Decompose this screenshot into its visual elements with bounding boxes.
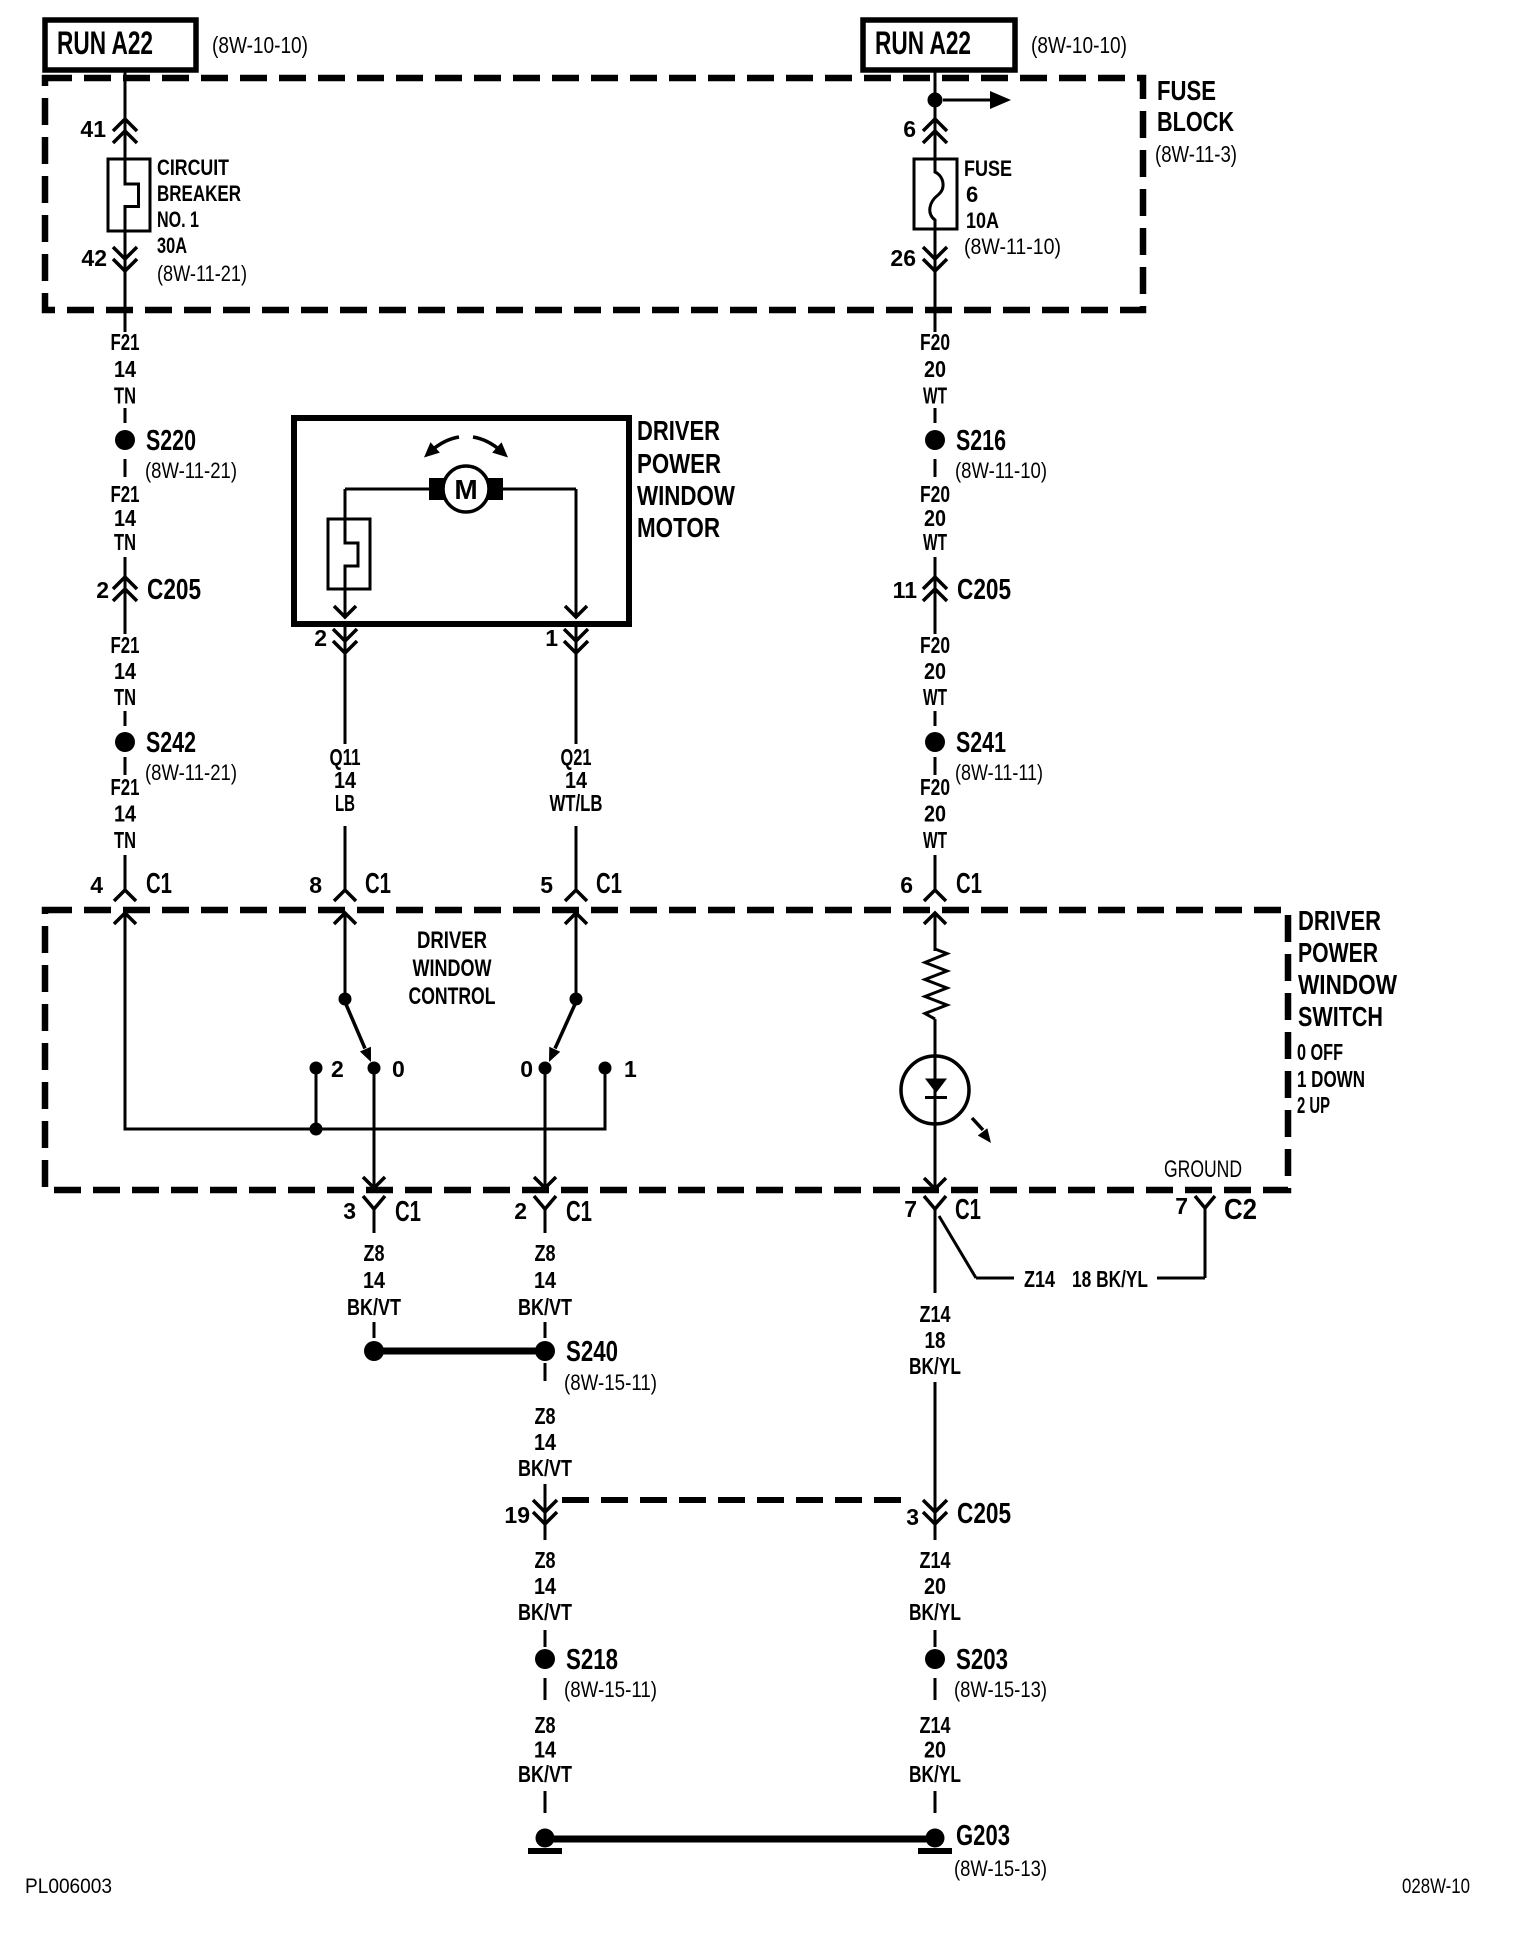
wire contact1 to bus xyxy=(604,1068,607,1131)
svg-text:BLOCK: BLOCK xyxy=(1157,106,1234,137)
motor M1 xyxy=(429,466,503,512)
node RUN A22 feed (right) xyxy=(863,20,1127,70)
svg-text:6: 6 xyxy=(966,182,978,207)
svg-text:3: 3 xyxy=(906,1504,919,1530)
svg-text:2: 2 xyxy=(314,625,327,651)
svg-text:FUSE: FUSE xyxy=(964,156,1012,181)
wire label Z14 right (3) xyxy=(909,1712,961,1787)
connector C2 pin 7 (ground) xyxy=(1175,1193,1257,1226)
fuse label xyxy=(964,156,1061,259)
ground label xyxy=(1164,1156,1242,1183)
svg-text:RUN A22: RUN A22 xyxy=(875,25,971,61)
svg-text:18 BK/YL: 18 BK/YL xyxy=(1072,1266,1148,1292)
svg-text:F20: F20 xyxy=(920,329,950,355)
svg-text:(8W-10-10): (8W-10-10) xyxy=(1031,32,1127,58)
svg-text:C205: C205 xyxy=(957,1498,1011,1530)
svg-text:MOTOR: MOTOR xyxy=(637,512,720,543)
connector C205 pin 3 xyxy=(906,1498,1011,1530)
svg-text:C1: C1 xyxy=(596,868,622,900)
svg-text:C1: C1 xyxy=(395,1196,421,1228)
svg-text:2: 2 xyxy=(514,1198,527,1224)
splice S241 xyxy=(925,727,1043,785)
contact 1 (right down) xyxy=(599,1056,638,1082)
svg-text:S220: S220 xyxy=(146,425,196,457)
svg-text:7: 7 xyxy=(904,1196,917,1222)
wire motor right lead xyxy=(503,488,576,491)
svg-text:SWITCH: SWITCH xyxy=(1298,1001,1383,1032)
node fuse feed junction xyxy=(928,91,1012,109)
svg-text:8: 8 xyxy=(309,872,322,898)
svg-text:10A: 10A xyxy=(966,208,999,233)
svg-text:26: 26 xyxy=(890,245,916,271)
connector C1 pin 6 xyxy=(900,868,982,924)
splice S216 xyxy=(925,425,1047,483)
wire common bus xyxy=(124,1128,606,1131)
wire into C205 right xyxy=(934,557,937,634)
wire label F20 20 WT (3) xyxy=(920,632,950,710)
wire label F21 14 TN (1) xyxy=(111,329,140,409)
svg-text:RUN A22: RUN A22 xyxy=(57,25,153,61)
svg-text:14: 14 xyxy=(534,1267,556,1293)
junction bus dot xyxy=(310,1123,323,1136)
wire label F21 14 TN (3) xyxy=(111,632,140,710)
svg-text:POWER: POWER xyxy=(1298,937,1378,968)
connector C1 pin 8 xyxy=(309,868,391,924)
wire dashed into S220 xyxy=(124,408,127,423)
wire into C1 pin 6 xyxy=(934,855,937,890)
svg-text:2 UP: 2 UP xyxy=(1297,1092,1330,1118)
svg-text:C1: C1 xyxy=(566,1196,592,1228)
driver power window motor enclosure xyxy=(294,418,629,624)
svg-text:WT: WT xyxy=(923,684,947,710)
wire label Z8 mid (4) xyxy=(518,1712,572,1787)
fuse F6 xyxy=(914,159,957,231)
wire dashed S220 down xyxy=(124,459,127,477)
footer drawing number xyxy=(1402,1875,1470,1898)
svg-text:0: 0 xyxy=(392,1056,405,1082)
wire into C205 pin 19 xyxy=(544,1484,547,1540)
splice S203 xyxy=(925,1644,1047,1702)
switch arm left xyxy=(345,1002,371,1062)
svg-text:11: 11 xyxy=(893,577,918,603)
svg-text:WT/LB: WT/LB xyxy=(550,790,603,816)
svg-text:C205: C205 xyxy=(147,574,201,606)
connector motor pin 2 xyxy=(314,625,357,653)
svg-text:GROUND: GROUND xyxy=(1164,1156,1242,1183)
wire motor right lead down xyxy=(565,489,587,617)
wire label F20 20 WT (1) xyxy=(920,329,950,409)
wire resistor to LED xyxy=(924,1019,946,1189)
svg-text:20: 20 xyxy=(924,356,946,382)
svg-text:Z14: Z14 xyxy=(1024,1266,1055,1292)
svg-text:WINDOW: WINDOW xyxy=(413,955,492,982)
fuse block enclosure (dashed) xyxy=(45,78,1143,310)
svg-text:14: 14 xyxy=(114,658,136,684)
svg-text:M: M xyxy=(454,474,477,505)
svg-text:BK/VT: BK/VT xyxy=(518,1455,572,1481)
svg-text:F20: F20 xyxy=(920,481,950,507)
svg-text:14: 14 xyxy=(534,1573,556,1599)
svg-text:Z8: Z8 xyxy=(535,1712,556,1738)
svg-text:14: 14 xyxy=(114,505,136,531)
circuit breaker label xyxy=(157,155,247,286)
footer sheet number xyxy=(25,1875,112,1898)
wire dashed S242 down xyxy=(124,757,127,775)
wire dashed C205 link xyxy=(562,1497,912,1503)
svg-text:WT: WT xyxy=(923,827,947,853)
motor header label xyxy=(637,415,735,543)
svg-text:C205: C205 xyxy=(957,574,1011,606)
connector C1 pin 4 xyxy=(90,868,172,924)
svg-text:CIRCUIT: CIRCUIT xyxy=(157,155,229,180)
connector pin 6 (fuse top) xyxy=(903,116,947,143)
svg-text:Z8: Z8 xyxy=(535,1403,556,1429)
svg-text:(8W-15-13): (8W-15-13) xyxy=(954,1856,1047,1881)
connector C1 pin 5 xyxy=(540,868,622,924)
wire pin8 to pivot xyxy=(344,913,347,999)
svg-text:14: 14 xyxy=(534,1429,556,1455)
svg-text:18: 18 xyxy=(925,1327,946,1353)
connector C1 pin 2 xyxy=(514,1196,592,1233)
wire label Z8 mid (2) xyxy=(518,1403,572,1481)
svg-text:4: 4 xyxy=(90,872,103,898)
svg-text:7: 7 xyxy=(1175,1193,1188,1219)
svg-text:(8W-15-13): (8W-15-13) xyxy=(954,1677,1047,1702)
svg-text:F20: F20 xyxy=(920,774,950,800)
wire dashed into S240 mid xyxy=(544,1322,547,1338)
svg-text:Z8: Z8 xyxy=(535,1547,556,1573)
svg-text:BK/YL: BK/YL xyxy=(909,1761,961,1787)
switch pivot left xyxy=(339,993,352,1006)
svg-text:(8W-11-10): (8W-11-10) xyxy=(964,234,1061,259)
svg-text:14: 14 xyxy=(114,356,136,382)
connector motor pin 1 xyxy=(545,625,588,653)
svg-text:20: 20 xyxy=(924,1573,946,1599)
svg-text:LB: LB xyxy=(335,790,355,816)
splice S218 xyxy=(535,1644,657,1702)
fuse block label xyxy=(1155,75,1237,167)
wire pin5 to pivot xyxy=(575,913,578,999)
svg-text:(8W-15-11): (8W-15-11) xyxy=(564,1677,657,1702)
svg-text:C1: C1 xyxy=(955,1194,981,1226)
svg-text:2: 2 xyxy=(331,1056,344,1082)
wire breaker to S220 xyxy=(124,231,127,332)
wire pin4 to bus xyxy=(124,913,127,1131)
node RUN A22 feed (left) xyxy=(45,20,308,70)
svg-text:(8W-15-11): (8W-15-11) xyxy=(564,1370,657,1395)
svg-text:028W-10: 028W-10 xyxy=(1402,1875,1470,1898)
connector C205 pin 11 xyxy=(893,574,1011,606)
svg-text:BK/VT: BK/VT xyxy=(347,1294,401,1320)
svg-text:TN: TN xyxy=(114,383,136,409)
svg-text:1: 1 xyxy=(545,625,558,651)
LED emission arrow xyxy=(972,1118,991,1143)
svg-text:20: 20 xyxy=(924,658,946,684)
motor rotation arrows xyxy=(424,437,508,458)
svg-text:(8W-11-21): (8W-11-21) xyxy=(145,760,237,785)
svg-text:F21: F21 xyxy=(111,632,140,658)
svg-text:POWER: POWER xyxy=(637,448,721,479)
svg-text:20: 20 xyxy=(924,1737,946,1763)
svg-text:(8W-10-10): (8W-10-10) xyxy=(212,32,308,58)
svg-text:F21: F21 xyxy=(111,774,140,800)
svg-text:30A: 30A xyxy=(157,233,187,258)
ground (left) xyxy=(528,1829,562,1852)
wire into C205 left xyxy=(124,557,127,634)
wire Z14 into C205 xyxy=(934,1382,937,1540)
connector C1 pin 7 xyxy=(904,1194,981,1293)
wire label Z14 right (1) xyxy=(909,1301,961,1379)
svg-text:C2: C2 xyxy=(1224,1194,1257,1226)
svg-text:S240: S240 xyxy=(566,1336,618,1368)
connector pin 26 (fuse bottom) xyxy=(890,245,947,271)
svg-text:TN: TN xyxy=(114,827,136,853)
wire label F20 20 WT (4) xyxy=(920,774,950,853)
splice S242 xyxy=(115,727,237,785)
wire label Q11 14 LB xyxy=(330,744,361,816)
wire Q11 upper xyxy=(344,625,347,744)
wire dashed S241 down xyxy=(934,757,937,775)
svg-text:WINDOW: WINDOW xyxy=(1298,969,1397,1000)
svg-text:BK/VT: BK/VT xyxy=(518,1294,572,1320)
svg-text:TN: TN xyxy=(114,529,136,555)
svg-text:6: 6 xyxy=(903,116,916,142)
connector pin 42 xyxy=(81,245,137,271)
svg-text:(8W-11-10): (8W-11-10) xyxy=(955,458,1047,483)
ground G203 xyxy=(918,1820,1047,1881)
svg-text:BK/VT: BK/VT xyxy=(518,1599,572,1625)
svg-text:BK/YL: BK/YL xyxy=(909,1353,961,1379)
wire dashed into S216 xyxy=(934,408,937,423)
svg-text:BREAKER: BREAKER xyxy=(157,181,241,206)
svg-text:1 DOWN: 1 DOWN xyxy=(1297,1066,1365,1092)
switch control label xyxy=(409,927,496,1010)
svg-text:TN: TN xyxy=(114,684,136,710)
svg-text:G203: G203 xyxy=(956,1820,1010,1852)
connector C205 pin 2 xyxy=(96,574,201,606)
wire label Z8 mid (3) xyxy=(518,1547,572,1625)
wire fuse to S216 xyxy=(934,231,937,332)
svg-text:S218: S218 xyxy=(566,1644,618,1676)
resistor (illumination) xyxy=(925,949,947,1019)
wire contact0 left down xyxy=(363,1068,385,1188)
svg-text:42: 42 xyxy=(81,245,107,271)
svg-text:F21: F21 xyxy=(111,329,140,355)
svg-text:WINDOW: WINDOW xyxy=(637,480,735,511)
motor thermal breaker xyxy=(328,489,370,617)
svg-text:C1: C1 xyxy=(146,868,172,900)
wire RUN A22 left feed xyxy=(124,70,127,159)
svg-text:Z8: Z8 xyxy=(364,1240,385,1266)
svg-text:(8W-11-11): (8W-11-11) xyxy=(955,760,1043,785)
svg-text:1: 1 xyxy=(624,1056,637,1082)
junction S240 left dot xyxy=(364,1341,384,1361)
wire contact2 to bus xyxy=(315,1068,318,1129)
wire into C1 pin 4 xyxy=(124,855,127,890)
wire label Z14 right (2) xyxy=(909,1547,961,1625)
svg-text:WT: WT xyxy=(923,529,947,555)
svg-text:41: 41 xyxy=(80,116,106,142)
splice S240 xyxy=(535,1336,657,1395)
svg-text:F20: F20 xyxy=(920,632,950,658)
wire dashed S240 down xyxy=(544,1363,547,1381)
svg-text:20: 20 xyxy=(924,801,946,827)
contact 0 (left off) xyxy=(368,1056,405,1082)
wire motor left lead xyxy=(345,488,430,491)
svg-text:0: 0 xyxy=(520,1056,533,1082)
svg-text:19: 19 xyxy=(504,1502,530,1528)
svg-text:BK/YL: BK/YL xyxy=(909,1599,961,1625)
svg-text:Z14: Z14 xyxy=(920,1301,951,1327)
svg-text:DRIVER: DRIVER xyxy=(417,927,487,954)
svg-text:F21: F21 xyxy=(111,481,140,507)
LED indicator xyxy=(901,1056,969,1124)
wire Q21 lower xyxy=(575,826,578,890)
circuit breaker No.1 CB1 xyxy=(108,159,150,231)
wire dashed into S242 xyxy=(124,711,127,726)
wire label Q21 14 WT/LB xyxy=(550,744,603,816)
switch pivot right xyxy=(570,993,583,1006)
svg-text:FUSE: FUSE xyxy=(1157,75,1216,106)
wire ground link xyxy=(545,1836,935,1843)
svg-text:BK/VT: BK/VT xyxy=(518,1761,572,1787)
svg-text:C1: C1 xyxy=(956,868,982,900)
wire Z14 callout xyxy=(939,1208,1205,1292)
svg-text:Z14: Z14 xyxy=(920,1712,951,1738)
switch header label xyxy=(1297,905,1397,1118)
svg-text:(8W-11-21): (8W-11-21) xyxy=(157,261,247,286)
wire label F21 14 TN (2) xyxy=(111,481,140,555)
svg-text:S216: S216 xyxy=(956,425,1006,457)
wire label Z8 mid (1) xyxy=(518,1240,572,1320)
svg-text:WT: WT xyxy=(923,383,947,409)
svg-text:14: 14 xyxy=(114,801,136,827)
svg-text:C1: C1 xyxy=(365,868,391,900)
wire Q11 lower xyxy=(344,826,347,890)
svg-text:S241: S241 xyxy=(956,727,1006,759)
wire dashed into S218 xyxy=(544,1630,547,1647)
svg-text:6: 6 xyxy=(900,872,913,898)
svg-text:DRIVER: DRIVER xyxy=(637,415,720,446)
contact 0 (right off) xyxy=(520,1056,551,1082)
connector C205 pin 19 xyxy=(504,1500,557,1528)
svg-text:0 OFF: 0 OFF xyxy=(1297,1039,1343,1065)
svg-text:20: 20 xyxy=(924,505,946,531)
wire RUN A22 right feed xyxy=(934,70,937,159)
motor lead arrow left xyxy=(334,606,356,617)
connector C1 pin 3 xyxy=(343,1196,421,1233)
wire dashed into S241 xyxy=(934,711,937,726)
svg-text:Z8: Z8 xyxy=(535,1240,556,1266)
wire S240 jumper xyxy=(374,1348,545,1355)
svg-text:DRIVER: DRIVER xyxy=(1298,905,1381,936)
wire Q21 upper xyxy=(575,625,578,744)
wire contact0 right down xyxy=(534,1068,556,1188)
wire dashed S218 down xyxy=(544,1678,547,1700)
wire dashed S216 down xyxy=(934,459,937,477)
svg-text:Z14: Z14 xyxy=(920,1547,951,1573)
svg-text:CONTROL: CONTROL xyxy=(409,983,496,1010)
wire label F21 14 TN (4) xyxy=(111,774,140,853)
contact 2 (left up) xyxy=(310,1056,344,1082)
connector pin 41 xyxy=(80,116,137,143)
svg-text:PL006003: PL006003 xyxy=(25,1875,112,1898)
wire dashed into ground right xyxy=(934,1791,937,1813)
svg-text:(8W-11-3): (8W-11-3) xyxy=(1155,141,1237,167)
wire dashed into S203 xyxy=(934,1630,937,1647)
svg-text:S242: S242 xyxy=(146,727,196,759)
svg-text:NO. 1: NO. 1 xyxy=(157,207,199,232)
wire dashed into ground left xyxy=(544,1791,547,1813)
wire label Z8 left (1) xyxy=(347,1240,401,1320)
switch enclosure (dashed) xyxy=(45,910,1288,1190)
svg-text:14: 14 xyxy=(534,1737,556,1763)
wire pin6 into switch xyxy=(934,913,937,951)
svg-text:3: 3 xyxy=(343,1198,356,1224)
svg-text:2: 2 xyxy=(96,577,109,603)
wire dashed S203 down xyxy=(934,1678,937,1700)
svg-text:5: 5 xyxy=(540,872,553,898)
switch arm right xyxy=(549,1002,576,1062)
splice S220 xyxy=(115,425,237,483)
svg-text:S203: S203 xyxy=(956,1644,1008,1676)
wire label F20 20 WT (2) xyxy=(920,481,950,555)
wire dashed into S240 left xyxy=(373,1322,376,1338)
svg-text:14: 14 xyxy=(363,1267,385,1293)
svg-text:(8W-11-21): (8W-11-21) xyxy=(145,458,237,483)
